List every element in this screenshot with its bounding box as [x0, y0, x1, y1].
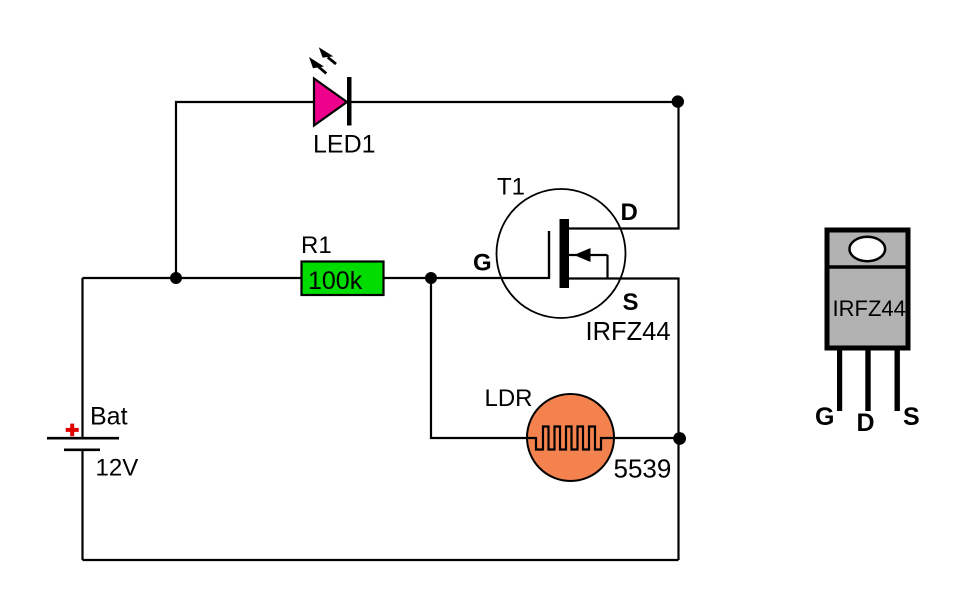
svg-text:100k: 100k [308, 267, 363, 295]
svg-text:S: S [623, 289, 639, 316]
svg-text:IRFZ44: IRFZ44 [586, 318, 671, 346]
svg-text:G: G [473, 250, 492, 277]
svg-text:G: G [815, 403, 834, 431]
svg-text:Bat: Bat [90, 403, 128, 431]
svg-text:LDR: LDR [485, 385, 533, 412]
svg-text:T1: T1 [497, 174, 525, 201]
svg-text:12V: 12V [96, 455, 139, 482]
svg-text:R1: R1 [301, 232, 332, 259]
svg-text:D: D [621, 199, 638, 226]
svg-text:S: S [903, 403, 920, 431]
svg-text:IRFZ44: IRFZ44 [833, 296, 906, 321]
svg-text:D: D [857, 409, 875, 437]
svg-text:5539: 5539 [614, 454, 672, 484]
svg-text:LED1: LED1 [313, 131, 376, 159]
